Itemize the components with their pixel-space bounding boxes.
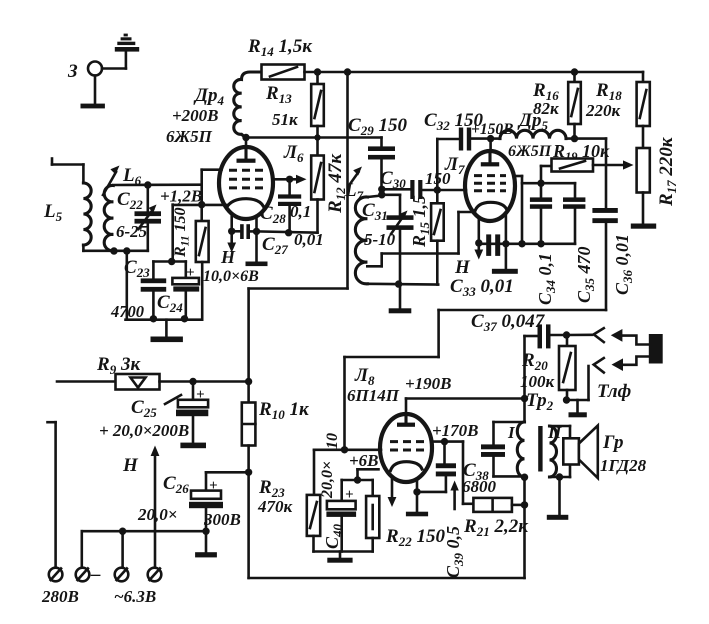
speaker Гр 1ГД28 (563, 426, 646, 479)
node Л6 anode (242, 134, 249, 141)
node phones top (563, 331, 570, 338)
svg-text:+: + (186, 265, 195, 281)
node R21 right (521, 501, 528, 508)
svg-text:100к: 100к (520, 372, 555, 391)
node C28 bottom (285, 229, 292, 236)
svg-text:С35 470: С35 470 (574, 246, 597, 303)
terminal 6,3В b (114, 568, 161, 606)
svg-text:1ГД28: 1ГД28 (600, 456, 647, 475)
wire B+ vertical drop (249, 72, 348, 403)
svg-text:Н: Н (220, 247, 236, 267)
terminal minus (76, 564, 101, 585)
terminal bar under З (81, 104, 105, 109)
wire B+ top rail (305, 71, 644, 74)
wire phones return (567, 366, 589, 400)
resistor R15 1,5 (409, 190, 444, 285)
svg-text:R11 150: R11 150 (172, 207, 192, 258)
svg-text:З: З (67, 61, 78, 82)
node R20 bottom (563, 396, 570, 403)
node +6В (354, 476, 361, 483)
svg-text:+6В: +6В (349, 451, 379, 470)
node choke/R16 (571, 135, 578, 142)
node R12/R13 on anode rail (314, 134, 320, 140)
node C26 tap (245, 469, 252, 476)
node Л8 grid (341, 446, 348, 453)
resistor R12 47к (potentiometer) (311, 138, 348, 233)
svg-text:+200В: +200В (172, 106, 219, 125)
svg-text:С29 150: С29 150 (348, 115, 407, 138)
resistor R20 100к (520, 335, 576, 400)
wire Л7 cathode line (479, 243, 575, 246)
svg-text:R15 1,5: R15 1,5 (409, 195, 432, 248)
svg-text:R21 2,2к: R21 2,2к (463, 516, 529, 539)
svg-text:С37 0,047: С37 0,047 (471, 311, 546, 334)
wire box left edge (126, 251, 129, 320)
node C23 bottom (150, 315, 157, 322)
ground (earth symbol) (115, 34, 139, 52)
wire L6 top to grid riser (113, 183, 201, 186)
node Л7 heater (475, 239, 482, 246)
wire Л6 anode to node (245, 138, 248, 148)
svg-text:С36 0,01: С36 0,01 (612, 234, 635, 295)
wire antenna input (52, 159, 83, 184)
svg-text:5-10: 5-10 (364, 230, 396, 249)
arrow Н heater supply (122, 446, 159, 568)
capacitor C28 0,1 (260, 179, 311, 232)
wire 280В riser (48, 422, 56, 567)
node C26 bottom (202, 528, 209, 535)
svg-text:6-25: 6-25 (116, 222, 148, 241)
wire Л6 grid2 to R12 wiper arrow (272, 175, 306, 184)
capacitor C24 (electrolytic) (157, 262, 199, 319)
wire Л7 cathode stubs (479, 215, 506, 244)
wire +1.2V cathode branch (173, 185, 227, 262)
heater arrow (Л8) (388, 477, 397, 507)
wire Л6 cathode stubs (232, 214, 257, 232)
svg-text:6800: 6800 (462, 477, 497, 496)
svg-text:20,0×: 20,0× (137, 505, 177, 524)
node C29 bottom (378, 186, 385, 193)
resistor R18 220к (585, 72, 650, 148)
svg-text:+: + (345, 487, 354, 503)
resistor R16 82к (532, 72, 581, 139)
svg-text:С33 0,01: С33 0,01 (450, 276, 514, 299)
wire Л8 cathode (342, 469, 379, 480)
coil L6 (103, 165, 142, 251)
node secondary ground (556, 473, 563, 480)
svg-text:10: 10 (324, 433, 341, 449)
svg-text:6П14П: 6П14П (347, 386, 400, 405)
resistor R23 470к (257, 450, 320, 552)
resistor R13 51к (265, 72, 324, 138)
svg-text:Тлф: Тлф (597, 381, 631, 402)
svg-text:+170В: +170В (432, 421, 479, 440)
node Л6 heater (228, 228, 235, 235)
svg-text:Н: Н (454, 257, 471, 278)
tube Л6 (6Ж5П) (166, 85, 304, 219)
tube Л7 (6Ж5П) (444, 143, 552, 221)
capacitor C30 150 (380, 168, 466, 199)
ground below C40 (327, 552, 352, 563)
wire bottom rail (249, 577, 525, 580)
node cathode junction (198, 201, 205, 208)
ground below C31 (389, 308, 412, 313)
svg-text:0,01: 0,01 (294, 230, 324, 249)
svg-text:220к: 220к (585, 101, 621, 120)
svg-text:R17 220к: R17 220к (656, 136, 679, 207)
wire C36 to Л8 grid (345, 310, 607, 450)
node R13 top (314, 68, 321, 75)
svg-text:+ 20,0×200В: + 20,0×200В (99, 421, 189, 440)
svg-text:R14 1,5к: R14 1,5к (247, 36, 313, 59)
capacitor C34 0,1 (530, 183, 558, 305)
svg-text:–: – (90, 564, 101, 585)
node R19 tap (537, 180, 544, 187)
wire L7 tap to cathode line (367, 254, 458, 267)
node L7 bottom (395, 280, 402, 287)
node anode/Тр2 (521, 395, 528, 402)
ground below secondary (547, 477, 569, 520)
wire Л6 cathode line (257, 231, 318, 232)
transformer Тр2 primary I (507, 336, 554, 578)
svg-text:+1,2В: +1,2В (160, 187, 202, 206)
capacitor C26 (electrolytic 20,0x300В) (137, 472, 249, 531)
node C22 top (144, 181, 151, 188)
resistor R22 150 (366, 480, 445, 552)
svg-text:+190В: +190В (405, 374, 452, 393)
resistor R11 150 (172, 207, 209, 319)
svg-text:6Ж5П: 6Ж5П (166, 127, 213, 146)
node L6 bottom (110, 247, 117, 254)
wire tank top (368, 189, 400, 197)
svg-text:20,0×: 20,0× (319, 461, 336, 499)
node box left top (123, 247, 130, 254)
svg-text:6Ж5П: 6Ж5П (508, 143, 552, 160)
svg-text:470к: 470к (257, 497, 293, 516)
wire minus rail (82, 531, 206, 567)
node R9/R10 (245, 378, 252, 385)
node C34 bottom (537, 240, 544, 247)
choke Др5 (491, 110, 606, 139)
svg-text:82к: 82к (533, 99, 559, 118)
svg-text:51к: 51к (272, 110, 298, 129)
svg-text:~6.3В: ~6.3В (114, 587, 156, 606)
capacitor C35 470 (563, 183, 597, 303)
svg-text:10,0×6В: 10,0×6В (203, 268, 259, 285)
capacitor C31 5-10 (trimmer) (362, 195, 414, 308)
ground below C26 (195, 531, 217, 557)
wire Л8 anode (406, 399, 525, 415)
node C24 bottom (181, 315, 188, 322)
node Л7 grid (434, 186, 441, 193)
svg-text:280В: 280В (41, 587, 79, 606)
svg-text:С34 0,1: С34 0,1 (535, 253, 558, 305)
svg-text:С39 0,5: С39 0,5 (443, 526, 466, 578)
svg-text:R22 150: R22 150 (385, 526, 445, 549)
earth terminal З (67, 52, 126, 104)
heater arrow Н (Л7) (454, 244, 483, 278)
node Л7 anode (487, 135, 494, 142)
node B+ drop (344, 68, 351, 75)
svg-text:+: + (209, 478, 218, 494)
coil L5 (43, 183, 91, 251)
ground below C23/C24 (151, 320, 183, 342)
wire Л8 cathode ground (406, 479, 428, 517)
ground below R20 (569, 400, 587, 417)
svg-text:300В: 300В (203, 510, 241, 529)
capacitor C22 (trimmer 6-25) (116, 185, 161, 251)
wire C23/C24 top rail (153, 260, 185, 263)
capacitor C37 0,047 (471, 311, 567, 348)
node C39 bottom (413, 488, 420, 495)
capacitor C40 (electrolytic 20,0x10) (319, 433, 356, 552)
transformer Тр2 secondary II (547, 423, 570, 477)
terminal 280В (41, 568, 79, 606)
node Л7 cathode-gnd (502, 240, 509, 247)
transformer core (538, 426, 542, 472)
resistor R14 1,5к (247, 36, 313, 80)
tube Л8 (6П14П) (347, 365, 432, 482)
capacitor C27 0,01 (240, 224, 324, 257)
wire Л7 cathode tap (459, 212, 475, 254)
svg-text:+: + (196, 387, 205, 403)
ground below Л7 cathode (492, 244, 518, 274)
node 6.3В tap (119, 528, 126, 535)
capacitor C33 0,01 (450, 234, 514, 299)
capacitor C23 4700 (110, 257, 166, 321)
resistor R21 2,2к (463, 498, 529, 539)
wire bias bottom rail (314, 550, 373, 553)
wire box bottom rail (126, 318, 203, 321)
wire anode rail (246, 136, 382, 139)
wire grid riser of Л6 (202, 170, 222, 185)
svg-text:Н: Н (122, 455, 139, 476)
resistor R17 220к (potentiometer) (631, 136, 679, 229)
wire Л7 screen bypass (514, 176, 575, 244)
resistor R19 10к (541, 141, 634, 183)
node +1.2V on rail (168, 258, 175, 265)
capacitor C36 0,01 (592, 139, 635, 310)
node Л6 cathode-gnd (253, 228, 260, 235)
capacitor C25 (electrolytic 20,0x200В) (99, 382, 208, 449)
node screen/C39 (441, 438, 448, 445)
wire Л8 grid line (314, 448, 381, 451)
node primary bottom (521, 474, 528, 481)
node R16 top (571, 68, 578, 75)
wire L5/L6 bottom rail (83, 250, 147, 253)
capacitor C29 150 (348, 115, 407, 189)
resistor R9 3к (57, 354, 249, 390)
wire L7 bottom rail (367, 282, 438, 285)
heater arrow Н (Л6) (203, 231, 259, 285)
svg-text:Гр: Гр (602, 432, 623, 453)
choke Др4 (234, 72, 262, 138)
node C25 (189, 378, 196, 385)
svg-text:R10 1к: R10 1к (258, 399, 310, 422)
capacitor C39 0,5 (417, 442, 466, 578)
node L7 top (378, 191, 385, 198)
node C28 top (286, 176, 293, 183)
coil L7 (tapped) (344, 167, 367, 284)
terminal 6,3В a (115, 568, 129, 582)
wire Л7 anode riser (489, 139, 492, 152)
capacitor C32 150 (424, 110, 513, 190)
node screen bypass (518, 240, 525, 247)
headphones Тлф jack (567, 328, 663, 402)
resistor R10 1к (242, 399, 310, 578)
ground below Л6 cathode (246, 231, 268, 266)
capacitor C38 6800 (462, 422, 525, 496)
wire Л8 screen line (432, 442, 474, 504)
